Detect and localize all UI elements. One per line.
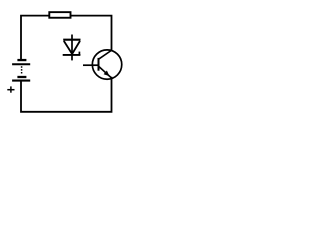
- battery plate long (cell 1): [12, 63, 30, 65]
- wire from battery positive terminal up and right to resistor, then to transistor collector (top net): [21, 16, 112, 60]
- diode anode lead: [71, 35, 73, 56]
- battery B1 (multi-cell): [12, 60, 30, 81]
- transistor base bar: [98, 58, 100, 71]
- transistor Q1 (NPN): [83, 50, 122, 79]
- battery plate short (cell 2): [17, 76, 26, 78]
- diode cathode bar: [63, 54, 81, 56]
- dotted link between battery cells: [21, 66, 23, 74]
- wire from battery negative terminal down and right to transistor emitter (bottom net): [21, 77, 112, 112]
- transistor emitter arm: [99, 66, 112, 78]
- transistor emitter arrow: [104, 71, 110, 77]
- diode cathode bar bent tip: [78, 52, 80, 55]
- transistor base lead: [83, 64, 99, 66]
- zener diode D1 (floating, cathode down): [63, 35, 81, 61]
- battery plate long (cell 2): [12, 80, 30, 82]
- diode triangle left edge: [64, 41, 72, 54]
- resistor R1 (box symbol in top wire): [49, 12, 70, 18]
- diode triangle top edge: [63, 39, 80, 41]
- transistor circle: [92, 50, 121, 79]
- battery polarity label +: [7, 86, 14, 92]
- battery plate short (cell 1): [17, 59, 26, 61]
- diode cathode lead: [71, 55, 73, 60]
- transistor collector arm: [99, 50, 112, 59]
- diode triangle right edge: [72, 41, 80, 54]
